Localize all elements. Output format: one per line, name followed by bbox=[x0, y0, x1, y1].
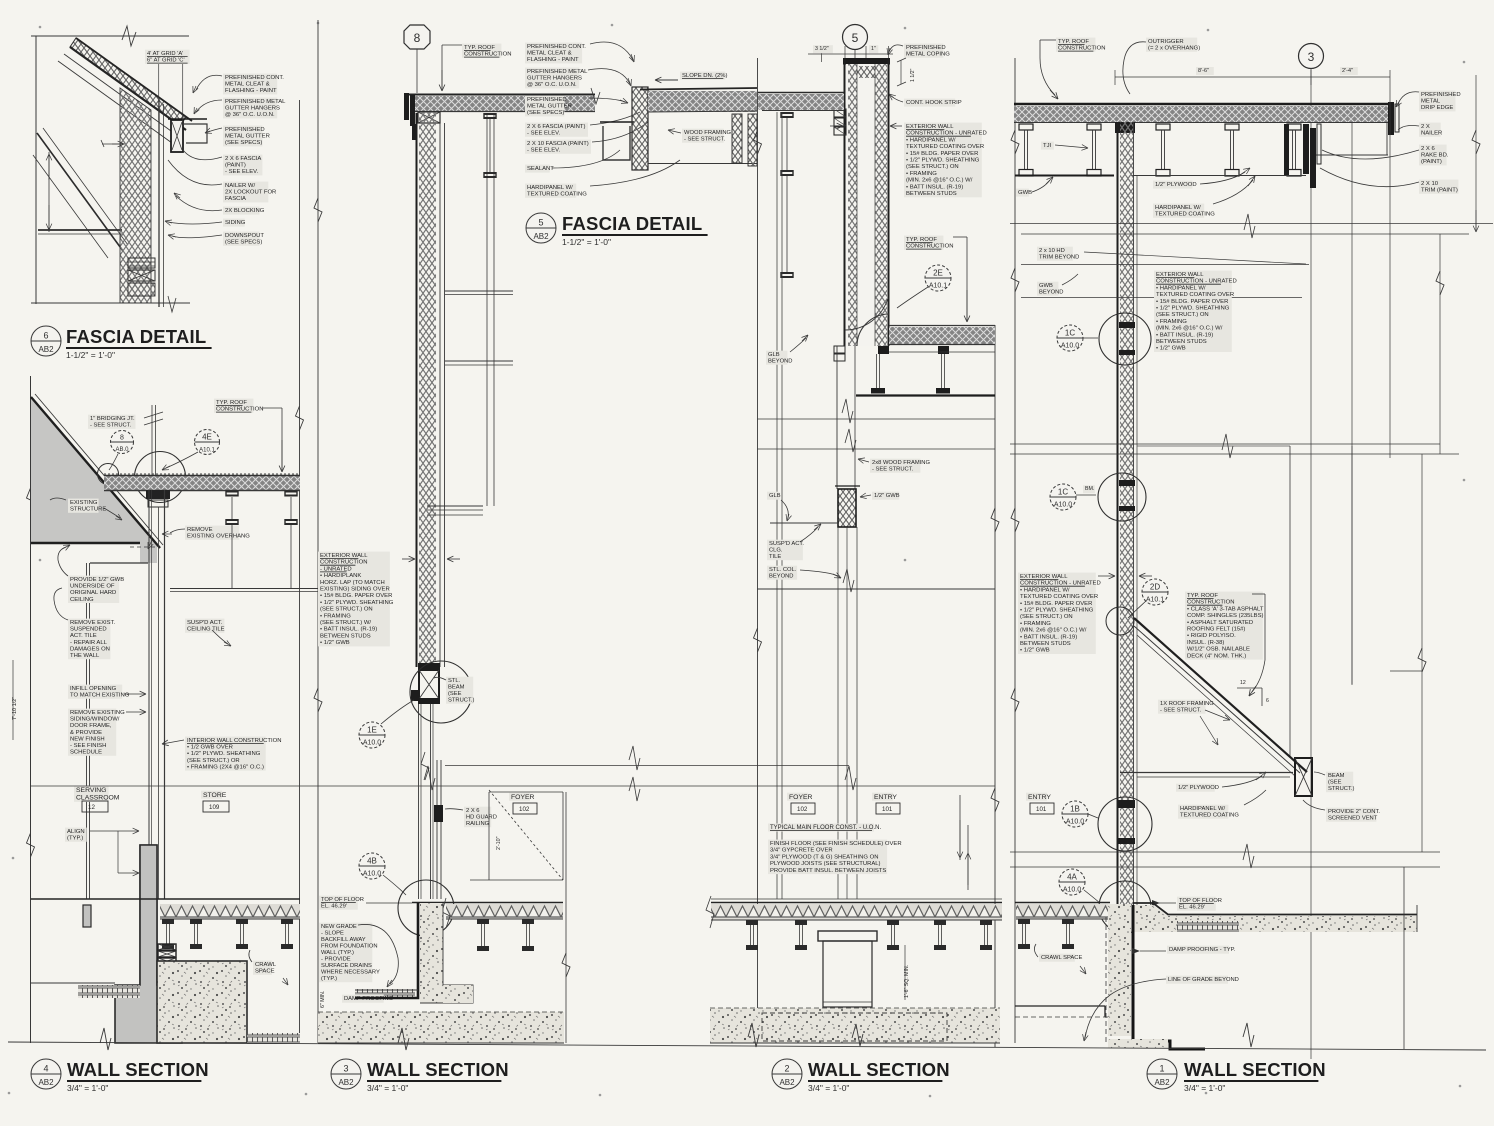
section 4 existing concrete wall gray strip bbox=[140, 845, 157, 985]
svg-text:8'-6": 8'-6" bbox=[1198, 68, 1209, 74]
section 1 crawl floor line bbox=[1015, 1005, 1105, 1007]
section 2 glb label small bbox=[767, 492, 780, 500]
section 1 detail circle 4A bbox=[1099, 881, 1151, 933]
svg-text:A10.0: A10.0 bbox=[363, 871, 381, 878]
fascia detail 6 label nailer bbox=[223, 182, 268, 203]
svg-text:2E: 2E bbox=[933, 269, 943, 278]
svg-text:AB.0: AB.0 bbox=[115, 447, 129, 453]
section 1 grade stipple band bbox=[1133, 905, 1417, 932]
fascia detail 6 blocking stack bbox=[128, 258, 155, 268]
section 1 beam label bbox=[1326, 772, 1353, 793]
section 2 left roof hanger bbox=[781, 112, 793, 114]
title bubble 3/AB2 bbox=[331, 1059, 361, 1089]
title bubble 6/AB2 bbox=[31, 326, 61, 356]
section 3 opening head lines bbox=[427, 505, 483, 507]
section 3 interior wall beyond lines bbox=[486, 113, 488, 506]
fascia detail 6 bottom line bbox=[31, 302, 190, 304]
section 1 ceiling line under joists bbox=[1015, 175, 1114, 177]
section 2 top of floor lines bbox=[711, 902, 1002, 904]
section 1 foundation step thick line bbox=[1133, 905, 1205, 1049]
section 1 exterior wall construction text upper bbox=[1154, 271, 1232, 352]
svg-text:102: 102 bbox=[797, 806, 808, 813]
fascia detail 6 grid dim text bbox=[145, 50, 190, 64]
section 2 right roof band bbox=[889, 327, 995, 344]
title bubble 2/AB2 bbox=[772, 1059, 802, 1089]
section 2 susp ceiling line upper bbox=[770, 522, 839, 524]
sheet registration marks bbox=[39, 26, 42, 29]
section 3 stair frame lines bbox=[489, 791, 563, 793]
section 4 remove act tile text bbox=[68, 619, 110, 660]
fascia detail 6 wall siding face lines bbox=[158, 100, 160, 307]
svg-text:GLB: GLB bbox=[769, 493, 781, 499]
section 1 1x roof framing label bbox=[1158, 700, 1206, 714]
svg-text:BM.: BM. bbox=[1085, 486, 1094, 492]
section 1 wall top cap bbox=[1115, 122, 1135, 133]
section 1 gwb label bbox=[1016, 189, 1029, 197]
svg-text:3/4" = 1'-0": 3/4" = 1'-0" bbox=[67, 1083, 108, 1093]
svg-text:FASCIA DETAIL: FASCIA DETAIL bbox=[562, 213, 702, 234]
section 4 typ roof construction label bbox=[214, 399, 253, 413]
svg-text:12: 12 bbox=[88, 804, 95, 811]
section 2 col beyond lines bbox=[837, 527, 839, 899]
svg-text:2D: 2D bbox=[1150, 583, 1160, 592]
section 1 detail circle 1B bbox=[1098, 797, 1152, 851]
svg-text:A10.1: A10.1 bbox=[929, 283, 947, 290]
fascia detail 5 label cleat bbox=[525, 43, 582, 64]
section 1 screened vent label bbox=[1326, 808, 1376, 822]
section 1 exterior wall construction text mid bbox=[1018, 573, 1096, 654]
section 1 crawl dashed lines bbox=[1015, 1016, 1108, 1018]
section 2 glb beyond label bbox=[766, 351, 787, 365]
title bubble 1/AB2 bbox=[1147, 1059, 1177, 1089]
section 1 top of floor label bbox=[1177, 897, 1216, 911]
svg-text:FOYER: FOYER bbox=[511, 794, 535, 801]
section 1 grid circle 3 bbox=[1299, 44, 1324, 69]
section 1 line of grade label bbox=[1166, 976, 1228, 984]
section 1 small circle on wall bbox=[1106, 607, 1134, 635]
svg-text:PROVIDE 2" CONT. SCREENED VENT: PROVIDE 2" CONT. SCREENED VENT bbox=[1328, 809, 1382, 822]
section 2 hook strip label bbox=[904, 99, 955, 107]
section 2 grid circle 5 bbox=[843, 25, 868, 50]
svg-text:A10.0: A10.0 bbox=[1054, 502, 1072, 509]
section 1 break lines pair upper bbox=[1010, 223, 1493, 225]
svg-text:1C: 1C bbox=[1065, 329, 1075, 338]
section 2 right roof joist caps bbox=[878, 346, 889, 354]
fascia detail 6 label prefinished cleat bbox=[223, 74, 277, 95]
section 3 rake trim below bbox=[412, 124, 417, 140]
svg-text:4: 4 bbox=[43, 1064, 48, 1074]
section 2 parapet cap bbox=[843, 58, 890, 65]
section 2 hline mid bbox=[757, 418, 995, 420]
section 1 plywood label lower bbox=[1176, 784, 1215, 792]
section 4 small circle on rake bbox=[98, 464, 119, 485]
section 2 half inch gwb label bbox=[872, 492, 899, 500]
section 1 gwb beyond label bbox=[1037, 282, 1058, 296]
section 1 rake labels right bbox=[1419, 91, 1456, 112]
svg-text:AB2: AB2 bbox=[38, 345, 54, 354]
section 2 ceiling line lower bbox=[757, 588, 995, 590]
svg-text:A10.1: A10.1 bbox=[199, 447, 215, 453]
section 3 steel beam box bbox=[419, 670, 439, 699]
section 1 ref bubble 2D bbox=[1142, 579, 1168, 605]
svg-text:8: 8 bbox=[414, 31, 421, 45]
section 1 wall girt black bars bbox=[1119, 322, 1135, 328]
svg-text:6: 6 bbox=[1266, 698, 1269, 704]
section 3 roof band right break bbox=[591, 88, 600, 104]
svg-text:AB2: AB2 bbox=[1154, 1078, 1170, 1087]
section 4 ref bubble B/AB.0 bbox=[111, 431, 134, 454]
svg-text:3 1/2": 3 1/2" bbox=[815, 46, 829, 52]
section 4 new wall stud lines bbox=[148, 490, 150, 899]
section 3 wall dim arrows bbox=[402, 558, 415, 560]
svg-text:A10.0: A10.0 bbox=[1066, 819, 1084, 826]
section 4 interior ceiling line bbox=[90, 562, 148, 564]
svg-text:2: 2 bbox=[784, 1064, 789, 1074]
section 2 hook blocks at roof bbox=[834, 346, 845, 353]
section 1 stipple below step bbox=[1108, 1039, 1168, 1048]
svg-text:AB2: AB2 bbox=[338, 1078, 354, 1087]
section 4 room label store bbox=[201, 791, 222, 799]
section 4 right boundary lines bbox=[299, 100, 301, 1043]
svg-text:ENTRY: ENTRY bbox=[1028, 794, 1051, 801]
section 2 typ roof construction label bbox=[904, 236, 943, 250]
section 3 floor hatch band bbox=[446, 904, 563, 919]
fascia detail 5 label sealant bbox=[525, 165, 550, 173]
section 1 bottom border line bbox=[8, 1042, 1486, 1050]
fascia detail 6 label gutter hangers bbox=[223, 98, 277, 119]
fascia detail 5 gutter profile bbox=[603, 126, 630, 160]
svg-text:102: 102 bbox=[519, 806, 530, 813]
svg-text:2'-4": 2'-4" bbox=[1342, 68, 1353, 74]
section 1 tji joists bbox=[1019, 124, 1033, 130]
section 4 infill opening text bbox=[68, 685, 122, 699]
section 2 concrete pier bbox=[818, 931, 877, 941]
section 3 top of floor text bbox=[319, 896, 358, 910]
section 4 room label serving classroom bbox=[74, 786, 109, 802]
svg-text:1/2" GWB: 1/2" GWB bbox=[874, 493, 900, 499]
section 4 align typ text bbox=[65, 828, 87, 842]
section 1 ref bubble 4A bbox=[1059, 869, 1085, 895]
svg-text:1-1/2" = 1'-0": 1-1/2" = 1'-0" bbox=[562, 237, 611, 247]
section 3 wall face lines bbox=[416, 113, 418, 667]
section 2 exterior wall construction text bbox=[904, 123, 982, 198]
svg-text:A10.0: A10.0 bbox=[1061, 343, 1079, 350]
section 4 existing roof diagonal edge bbox=[31, 397, 160, 548]
section 2 glb beyond lines bbox=[776, 112, 778, 899]
section 4 grade brick hatch right bbox=[247, 1033, 300, 1044]
section 4 jack post plate stack bbox=[158, 944, 176, 950]
section 4 bridging joint text bbox=[88, 415, 136, 429]
section 1 hardipanel label lower bbox=[1178, 805, 1228, 819]
section 4 stipple block under store bbox=[157, 961, 247, 1043]
svg-text:3: 3 bbox=[343, 1064, 348, 1074]
fascia detail 6 left wall line bbox=[35, 36, 37, 304]
svg-text:CRAWL SPACE: CRAWL SPACE bbox=[255, 962, 277, 975]
section 1 grade top thick line bbox=[1133, 903, 1417, 915]
fascia detail 6 gutter hanger bar bbox=[168, 118, 207, 120]
section 4 roof band bbox=[104, 476, 300, 490]
fascia detail 6 small dim tick bbox=[102, 143, 125, 145]
svg-text:ENTRY: ENTRY bbox=[874, 794, 897, 801]
svg-text:SEALANT: SEALANT bbox=[527, 166, 554, 172]
section 1 crawl space label bbox=[1039, 954, 1075, 962]
section 3 guard rail verticals bbox=[436, 760, 438, 899]
svg-text:PREFINISHED METAL COPING: PREFINISHED METAL COPING bbox=[906, 45, 950, 58]
section 1 soffit line bbox=[1316, 154, 1388, 156]
section 2 pier dim text bbox=[904, 945, 906, 1000]
section 1 outrigger label bbox=[1146, 38, 1197, 52]
svg-text:4' AT GRID 'A' 6" AT GRID 'C': 4' AT GRID 'A' 6" AT GRID 'C' bbox=[147, 51, 185, 64]
section 3 wall batt column bbox=[419, 112, 436, 665]
section 2 crawl dashed box bbox=[762, 1013, 947, 1041]
section 4 wall top plates bbox=[146, 490, 170, 499]
section 1 grade brick hatch bbox=[1177, 921, 1239, 932]
svg-text:6: 6 bbox=[43, 331, 48, 341]
fascia detail 5 fascia vertical board bbox=[632, 87, 648, 170]
section 3 bottom stipple band bbox=[318, 1012, 564, 1043]
svg-text:3/4" = 1'-0": 3/4" = 1'-0" bbox=[1184, 1083, 1225, 1093]
section 3 wall line breaks bbox=[421, 752, 429, 780]
section 1 floor line left bbox=[1015, 902, 1110, 904]
svg-text:DAMP PROOFING - TYP.: DAMP PROOFING - TYP. bbox=[1169, 947, 1236, 953]
fascia detail 5 wood framing interior bbox=[648, 163, 757, 165]
section 4 top of floor line bbox=[31, 898, 300, 900]
section 3 eave blocking box bbox=[418, 112, 440, 123]
fascia detail 6 label downspout bbox=[223, 232, 260, 246]
svg-text:109: 109 bbox=[209, 804, 220, 811]
section 1 ref bubble 1B bbox=[1062, 801, 1088, 827]
svg-text:1/2" PLYWOOD: 1/2" PLYWOOD bbox=[1155, 182, 1197, 188]
svg-text:5: 5 bbox=[538, 218, 543, 228]
fascia detail 5 label 2x6 fascia bbox=[525, 123, 588, 137]
section 2 floor hatch band bbox=[711, 904, 1002, 920]
svg-text:WALL SECTION: WALL SECTION bbox=[1184, 1059, 1326, 1080]
section 4 hanger rods bbox=[226, 491, 238, 493]
section 1 break lines pair mid bbox=[1010, 443, 1440, 445]
fascia detail 6 wall insulation batt column bbox=[120, 88, 151, 303]
section 3 roof band bbox=[412, 96, 595, 111]
section 4 grid line at wall bbox=[151, 405, 153, 476]
section 4 footing gray block bbox=[115, 845, 182, 1043]
svg-text:A10.0: A10.0 bbox=[363, 740, 381, 747]
section 2 coping label bbox=[904, 44, 943, 58]
section 1 detail circle mid bbox=[1098, 473, 1146, 521]
section 1 right boundary bottom bbox=[1403, 867, 1405, 1049]
svg-text:2'-10": 2'-10" bbox=[496, 836, 502, 850]
section 2 floor posts bbox=[746, 920, 758, 925]
section 1 rake boards stack bbox=[1303, 124, 1309, 174]
section 2 wall dim arrows bbox=[830, 125, 843, 127]
section 1 sloped roof lines bbox=[1134, 618, 1307, 772]
section 4 interior partition lines bbox=[86, 563, 88, 899]
section 4 suspended ceiling line bbox=[170, 588, 318, 590]
section 3 floor detail circle bbox=[398, 880, 454, 936]
svg-text:1B: 1B bbox=[1070, 805, 1080, 814]
fascia detail 6 leaders bbox=[196, 75, 222, 90]
section 1 drip edge assembly bbox=[1388, 102, 1394, 135]
fascia detail 6 lower rafter diagonals bbox=[37, 133, 123, 251]
fascia detail 5 label 2x10 fascia bbox=[525, 140, 591, 154]
section 4 interior wall construction text bbox=[185, 737, 266, 771]
section 1 grid line bbox=[1310, 68, 1312, 1059]
fascia detail 5 label gutter hangers bbox=[525, 68, 579, 89]
svg-text:TJI: TJI bbox=[1043, 143, 1052, 149]
fascia detail 5 label hardipanel bbox=[525, 184, 576, 198]
svg-text:FOYER: FOYER bbox=[789, 794, 813, 801]
section 3 top of floor line bbox=[412, 902, 563, 904]
section 3 foundation stipple column bbox=[420, 903, 443, 1003]
section 1 roof construction text sloped bbox=[1185, 592, 1263, 660]
section 2 floor band left break bbox=[706, 896, 714, 928]
svg-text:STORE: STORE bbox=[203, 792, 227, 799]
svg-text:AB2: AB2 bbox=[779, 1078, 795, 1087]
long level line lower bbox=[31, 785, 995, 787]
fascia detail 6 dim line with arrows bbox=[48, 152, 50, 232]
section 4 floor posts bbox=[162, 919, 174, 924]
section 4 remove overhang dashed line bbox=[130, 546, 160, 548]
section 1 floor hatch band left bbox=[1016, 904, 1108, 919]
section 1 dim line bbox=[1115, 76, 1390, 78]
svg-text:6" MIN.: 6" MIN. bbox=[320, 991, 326, 1008]
fascia detail 5 roof band bbox=[648, 91, 757, 112]
svg-text:1: 1 bbox=[1159, 1064, 1164, 1074]
section 2 ceiling posts below roof bbox=[876, 354, 878, 388]
svg-text:WALL SECTION: WALL SECTION bbox=[367, 1059, 509, 1080]
section 1 foundation stipple column bbox=[1108, 904, 1131, 1036]
section 1 2x10 trim beyond label bbox=[1037, 247, 1073, 261]
section 3 foyer room label bbox=[509, 793, 530, 801]
section 1 slope indicator bbox=[1237, 687, 1262, 689]
svg-text:3/4" = 1'-0": 3/4" = 1'-0" bbox=[367, 1083, 408, 1093]
section 1 hardipanel label bbox=[1153, 204, 1204, 218]
section 4 provide gwb text bbox=[68, 576, 119, 603]
section 4 footing keyway notch bbox=[83, 905, 91, 927]
section 3 grid octagon 8 bbox=[404, 25, 430, 49]
section 3 rake boards at left bbox=[404, 93, 409, 120]
svg-text:DOWNSPOUT (SEE SPECS): DOWNSPOUT (SEE SPECS) bbox=[225, 233, 265, 246]
fascia detail 6 top plate line bbox=[31, 35, 189, 37]
section 3 2x6 guard railing text bbox=[464, 807, 491, 828]
section 4 remove existing siding text bbox=[68, 709, 116, 756]
svg-text:2X BLOCKING: 2X BLOCKING bbox=[225, 208, 265, 214]
section 1 break lines pair lower bbox=[1010, 851, 1440, 853]
svg-text:3: 3 bbox=[1308, 50, 1315, 64]
fascia detail 5 label metal gutter bbox=[525, 96, 564, 117]
svg-text:5: 5 bbox=[852, 31, 859, 45]
svg-text:8: 8 bbox=[120, 435, 124, 442]
section 3 typ roof construction label bbox=[462, 44, 501, 58]
svg-text:1 1/2": 1 1/2" bbox=[910, 68, 916, 82]
section 4 crawl space text bbox=[253, 961, 272, 975]
section 2 ref bubble 2E bbox=[925, 265, 951, 291]
section 2 roof corner detail arc bbox=[857, 314, 889, 346]
section 4 floor hatch band bbox=[160, 904, 300, 919]
fascia detail 6 label metal gutter bbox=[223, 126, 262, 147]
section 1 porch ceiling line bbox=[1120, 772, 1293, 774]
section 1 upper room frame lines bbox=[1137, 445, 1290, 447]
section 3 stl beam text bbox=[446, 677, 473, 704]
section 1 wall batt column upper bbox=[1120, 122, 1133, 905]
fascia detail 6 break on top line bbox=[122, 26, 136, 46]
fascia detail 6 label 2x6 fascia bbox=[223, 155, 262, 176]
svg-text:CRAWL SPACE: CRAWL SPACE bbox=[1041, 955, 1082, 961]
section 3 grid line from octagon bbox=[416, 49, 418, 93]
section 2 left roof band bbox=[758, 94, 844, 110]
section 4 crawl floor line bbox=[31, 982, 115, 984]
section 2 soffit thick line bbox=[856, 394, 995, 396]
fascia detail 6 roof diagonal band bbox=[58, 38, 192, 143]
svg-text:4A: 4A bbox=[1067, 873, 1077, 882]
section 2 floor dim lines bbox=[959, 795, 961, 860]
svg-text:7'-10 1/2": 7'-10 1/2" bbox=[12, 697, 18, 720]
section 4 grade brick hatch left bbox=[78, 985, 140, 998]
section 2 susp act clg tile label bbox=[767, 540, 803, 561]
section 4 remove existing overhang text bbox=[185, 526, 239, 540]
section 2 coping vertical dim bbox=[900, 60, 902, 84]
section 3 rail post cap bbox=[434, 805, 443, 822]
section 2 left boundary line bbox=[757, 58, 759, 1043]
svg-text:12: 12 bbox=[1240, 680, 1246, 686]
svg-text:1-1/2" = 1'-0": 1-1/2" = 1'-0" bbox=[66, 350, 115, 360]
svg-text:1" BRIDGING JT. - SEE STRUCT.: 1" BRIDGING JT. - SEE STRUCT. bbox=[90, 416, 136, 429]
svg-text:WALL SECTION: WALL SECTION bbox=[67, 1059, 209, 1080]
section 2 foyer label bbox=[787, 793, 808, 801]
section 1 damp proofing label bbox=[1167, 946, 1229, 954]
svg-text:A10.0: A10.0 bbox=[1063, 887, 1081, 894]
section 2 wall below parapet lines bbox=[836, 346, 838, 489]
svg-text:4E: 4E bbox=[202, 433, 212, 442]
svg-text:SIDING: SIDING bbox=[225, 220, 246, 226]
svg-text:LINE OF GRADE BEYOND: LINE OF GRADE BEYOND bbox=[1168, 977, 1239, 983]
section 3 floor band left break bbox=[442, 898, 450, 928]
section 3 wall below beam bbox=[418, 704, 420, 899]
section 3 stair diagonal dashed bbox=[489, 790, 563, 880]
section 4 ref bubble 4E/A101 bbox=[195, 430, 220, 455]
section 4 suspd act tile text bbox=[185, 619, 224, 633]
section 2 right boundary line bbox=[994, 325, 996, 1047]
section 1 detail circle upper bbox=[1099, 313, 1151, 365]
fascia detail 5 leaders bbox=[590, 42, 633, 60]
title bubble 5/AB2 bbox=[526, 213, 556, 243]
fascia detail 6 fascia gutter box bbox=[171, 120, 183, 152]
section 3 interior girts bbox=[484, 113, 496, 115]
section 3 beam detail circle bbox=[410, 661, 472, 723]
section 1 entry label bbox=[1026, 793, 1047, 801]
section 2 parapet wall column bbox=[846, 64, 888, 346]
svg-text:1": 1" bbox=[871, 46, 876, 52]
svg-text:SUSP'D ACT. CEILING TILE: SUSP'D ACT. CEILING TILE bbox=[187, 620, 225, 633]
title bubble 4/AB2 bbox=[31, 1059, 61, 1089]
section 1 typ roof construction label bbox=[1056, 38, 1095, 52]
section 3 ref bubble 1E bbox=[359, 722, 385, 748]
section 3 damp proofing band bbox=[355, 989, 415, 998]
section 1 roof band bbox=[1014, 106, 1390, 122]
fascia detail 5 slope arrow and text bbox=[680, 72, 725, 80]
fascia detail 6 gutter profile bbox=[183, 124, 207, 143]
svg-text:FASCIA DETAIL: FASCIA DETAIL bbox=[66, 326, 206, 347]
section 1 floor posts bbox=[1018, 919, 1030, 924]
section 4 existing structure text bbox=[68, 499, 99, 513]
svg-text:1C: 1C bbox=[1058, 488, 1068, 497]
section 3 ref bubble 4B bbox=[359, 853, 385, 879]
section 3 right edge line bbox=[565, 792, 567, 1043]
svg-text:CONT. HOOK STRIP: CONT. HOOK STRIP bbox=[906, 100, 962, 106]
svg-text:WALL SECTION: WALL SECTION bbox=[808, 1059, 950, 1080]
section 2 entry label bbox=[872, 793, 893, 801]
svg-text:101: 101 bbox=[882, 806, 893, 813]
section 2 hook strip blocks bbox=[834, 109, 846, 117]
section 1 ref bubble 1C upper bbox=[1057, 325, 1083, 351]
